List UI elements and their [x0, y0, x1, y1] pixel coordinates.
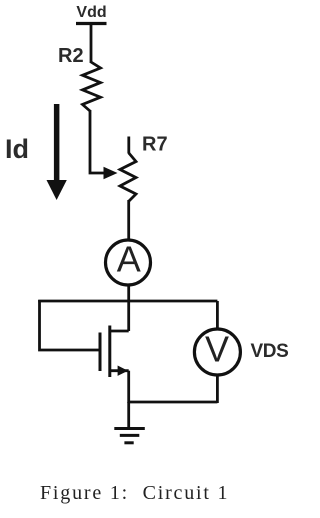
label R7 [142, 134, 168, 156]
wire gate feedback left [40, 300, 100, 350]
svg-text:R2: R2 [58, 45, 84, 67]
svg-text:R7: R7 [142, 134, 168, 156]
svg-text:A: A [117, 239, 141, 280]
wire voltmeter top lead [216, 301, 219, 330]
voltmeter U2 [194, 329, 240, 376]
wire top rail [38, 300, 217, 303]
net label Vdd [76, 4, 106, 21]
wire bottom rail [129, 401, 218, 404]
current arrow Id [47, 104, 67, 200]
svg-text:VDS: VDS [251, 341, 289, 362]
resistor R2 [83, 62, 101, 111]
transistor Q1 MOSFET [100, 326, 129, 378]
wire R7 to ammeter [127, 200, 130, 240]
label VDS [251, 341, 289, 362]
wire R2 to wiper [90, 110, 104, 173]
wire Vdd to R2 [90, 24, 93, 63]
label R2 [58, 45, 84, 67]
wire source down [127, 371, 130, 403]
wire ammeter to drain node [127, 285, 130, 331]
wiper arrow into R7 [104, 167, 118, 179]
label Id [5, 134, 29, 164]
caption Figure 1: Circuit 1 [40, 482, 229, 505]
svg-text:V: V [205, 329, 229, 370]
ground [114, 402, 145, 443]
potentiometer R7 [120, 137, 136, 202]
svg-text:Id: Id [5, 134, 29, 164]
power rail Vdd [76, 22, 107, 25]
ammeter U1 [106, 239, 151, 286]
wire voltmeter bottom lead [216, 374, 219, 403]
svg-text:Vdd: Vdd [76, 4, 106, 21]
